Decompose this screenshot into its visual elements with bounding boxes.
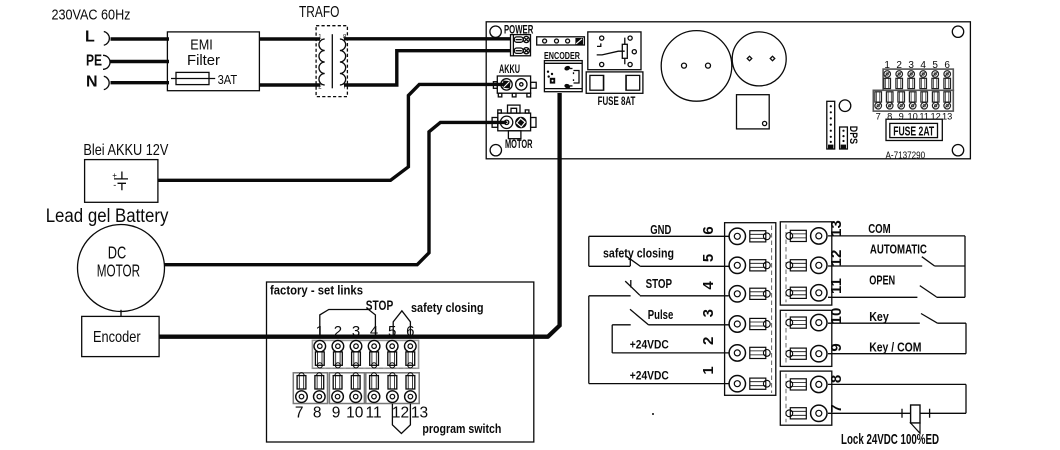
svg-text:FUSE 2AT: FUSE 2AT <box>893 123 934 138</box>
wire TRAFO to POWER top <box>344 37 511 40</box>
svg-text:7: 7 <box>295 404 304 421</box>
svg-text:6: 6 <box>700 226 717 234</box>
svg-text:OPEN: OPEN <box>869 273 895 287</box>
svg-text:13: 13 <box>828 220 845 237</box>
switch Pulse <box>630 309 649 325</box>
switch AUTOMATIC <box>922 257 935 266</box>
wire terminal 7 to lock <box>828 412 966 414</box>
connector MOTOR <box>492 105 536 139</box>
connector 4-pin strip <box>537 37 585 45</box>
svg-text:8: 8 <box>313 404 322 421</box>
wire EMI to TRAFO top <box>259 37 320 40</box>
svg-text:Filter: Filter <box>187 52 220 69</box>
wire +24VDC to terminal 1 <box>589 383 729 385</box>
svg-text:-: - <box>113 180 116 190</box>
svg-text:7: 7 <box>876 112 881 122</box>
safety closing link bracket terminals 5-6 <box>393 311 410 338</box>
svg-text:11: 11 <box>366 404 382 421</box>
right terminal numbers 13..7 rotated <box>828 220 845 413</box>
switch safety closing <box>626 256 641 267</box>
svg-text:12: 12 <box>828 250 845 267</box>
svg-text:L: L <box>85 28 95 45</box>
svg-text:+24VDC: +24VDC <box>630 369 669 383</box>
IC U2 square <box>737 95 770 129</box>
terminal 7 <box>786 405 827 421</box>
DIP switch strip tall <box>827 101 835 149</box>
PCB terminal strip row 7-13 <box>873 90 953 111</box>
contact arc PE <box>103 55 110 69</box>
PCB board outline <box>486 22 970 159</box>
factory-set links box <box>267 282 534 442</box>
svg-text:GND: GND <box>650 223 671 237</box>
encoder box <box>82 316 159 356</box>
wire Pulse-24VDC vertical <box>611 325 613 353</box>
terminal 1 <box>729 376 770 392</box>
svg-text:10: 10 <box>346 404 364 421</box>
wire terminal 8 <box>828 383 966 385</box>
wire TRAFO bottom to POWER bottom <box>344 51 511 87</box>
svg-text:3AT: 3AT <box>218 73 238 87</box>
svg-text:TRAFO: TRAFO <box>299 4 339 21</box>
svg-text:9: 9 <box>899 112 904 122</box>
wire +24VDC to terminal 2 <box>612 352 728 354</box>
transformer secondary coil <box>340 39 346 85</box>
PCB mounting hole bottom-right <box>952 145 963 156</box>
wire 8-7 vertical <box>965 384 967 413</box>
PCB terminal strip numbers 1-6 <box>884 60 950 71</box>
svg-text:9: 9 <box>828 343 845 351</box>
factory numbers 1-6 <box>316 323 415 340</box>
svg-text:safety closing: safety closing <box>411 300 484 315</box>
lock lead ticks <box>902 409 930 418</box>
svg-text:9: 9 <box>332 404 341 421</box>
svg-text:Pulse: Pulse <box>648 308 674 322</box>
transformer primary coil <box>319 39 325 85</box>
svg-text:Key: Key <box>869 310 889 324</box>
svg-text:13: 13 <box>411 404 428 421</box>
wire Key/COM from terminal 9 <box>828 353 966 355</box>
svg-text:8: 8 <box>828 375 845 383</box>
svg-text:11: 11 <box>919 112 929 122</box>
PCB mounting hole bottom-left <box>490 145 501 156</box>
left terminal numbers 6..1 rotated <box>700 226 717 374</box>
wire GND to terminal 6 <box>589 235 729 237</box>
terminal 10 <box>786 314 827 330</box>
switch STOP <box>625 280 640 295</box>
PCB terminal strip numbers 7-13 <box>876 112 953 122</box>
svg-text:10: 10 <box>828 308 845 325</box>
wire COM vertical <box>964 236 966 297</box>
terminal 8 <box>786 376 827 392</box>
svg-text:DPS: DPS <box>847 126 859 144</box>
PCB terminal strip row 1-6 <box>883 69 953 90</box>
EMI filter box <box>167 32 259 91</box>
wire Pulse to terminal 3 <box>612 324 728 326</box>
terminal 5 <box>729 257 770 273</box>
contact arc L <box>104 32 110 46</box>
svg-text:13: 13 <box>942 112 952 122</box>
wire STOP to terminal 4 <box>589 295 729 297</box>
terminal 12 <box>786 257 827 273</box>
svg-text:safety closing: safety closing <box>603 247 674 261</box>
svg-text:10: 10 <box>908 112 918 122</box>
svg-text:2: 2 <box>700 337 717 345</box>
terminal 4 <box>729 286 770 302</box>
wire GND-safety vertical <box>588 236 590 266</box>
battery box <box>85 160 158 203</box>
fuse holder FUSE 8AT <box>586 72 643 93</box>
svg-text:Blei AKKU 12V: Blei AKKU 12V <box>83 142 168 159</box>
connector POWER <box>511 35 531 56</box>
wire DC motor to MOTOR connector <box>165 122 507 264</box>
svg-text:12: 12 <box>931 112 941 122</box>
svg-text:program switch: program switch <box>422 421 501 436</box>
svg-text:Lock 24VDC 100%ED: Lock 24VDC 100%ED <box>841 431 939 448</box>
svg-text:11: 11 <box>828 278 845 294</box>
capacitor C1 <box>661 31 732 102</box>
switch Key <box>921 314 938 324</box>
wire encoder over factory box (redraw on top) <box>159 334 548 338</box>
factory terminal row 1-6 <box>312 340 418 368</box>
svg-text:Encoder: Encoder <box>93 329 141 346</box>
wire N to EMI <box>111 81 170 84</box>
wire Key from terminal 10 <box>828 322 966 324</box>
terminal 11 <box>786 285 827 301</box>
wire safety closing to terminal 5 <box>589 265 729 267</box>
transformer core bar <box>331 34 333 88</box>
relay U1 <box>588 32 641 70</box>
svg-text:AKKU: AKKU <box>499 62 520 76</box>
capacitor C2 <box>732 32 786 86</box>
wire STOP-24VDC vertical <box>588 296 590 384</box>
terminal 3 <box>729 316 770 332</box>
wire battery to AKKU connector <box>158 84 506 180</box>
svg-text:230VAC 60Hz: 230VAC 60Hz <box>52 7 131 24</box>
svg-text:8: 8 <box>887 112 892 122</box>
svg-text:PE: PE <box>86 53 102 70</box>
svg-text:Key / COM: Key / COM <box>869 340 921 354</box>
terminal block right group 8-7 <box>780 371 832 425</box>
connector ENCODER box <box>544 61 582 92</box>
terminal block left 6..1 <box>725 223 776 396</box>
stray dot <box>652 413 654 415</box>
DIP switch strip short DPS <box>840 127 848 149</box>
wire encoder box to ENCODER connector <box>159 93 560 337</box>
battery symbol <box>114 172 128 191</box>
wire Key vertical <box>965 323 967 354</box>
svg-text:3: 3 <box>700 309 717 317</box>
svg-text:+: + <box>112 171 117 180</box>
solenoid lock <box>911 405 920 423</box>
PCB hole near DPS <box>839 100 851 112</box>
PCB mounting hole top-left <box>490 26 501 37</box>
factory terminal row 7-13 group 7-8 <box>293 373 419 404</box>
contact arc N <box>104 76 109 89</box>
STOP link bracket terminals 1-4 <box>320 310 376 338</box>
svg-text:factory - set links: factory - set links <box>270 282 363 297</box>
svg-text:+24VDC: +24VDC <box>630 338 669 352</box>
svg-text:A-7137290: A-7137290 <box>886 149 926 161</box>
program switch bracket terminals 12-13 <box>392 404 410 434</box>
wire L to EMI <box>111 37 170 40</box>
wire OPEN from terminal 11 <box>828 296 965 298</box>
svg-text:5: 5 <box>700 254 717 262</box>
svg-text:4: 4 <box>700 281 717 290</box>
svg-text:MOTOR: MOTOR <box>97 260 140 280</box>
terminal block right group 10-9 <box>780 310 832 366</box>
svg-text:AUTOMATIC: AUTOMATIC <box>870 242 927 256</box>
fuse holder FUSE 2AT <box>886 119 942 140</box>
svg-text:1: 1 <box>700 366 717 374</box>
svg-text:Lead gel Battery: Lead gel Battery <box>46 206 169 227</box>
transformer dashed box <box>316 26 347 97</box>
svg-text:COM: COM <box>868 222 891 236</box>
terminal block right group 13-12-11 <box>780 222 832 305</box>
connector AKKU <box>493 76 536 97</box>
terminal 9 <box>786 346 827 362</box>
wire COM from terminal 13 <box>828 235 965 237</box>
wire EMI to TRAFO bottom <box>259 83 320 86</box>
motor DC MOTOR circle <box>78 225 165 312</box>
terminal 13 <box>786 228 827 244</box>
terminal 6 <box>729 228 770 244</box>
svg-text:7: 7 <box>828 404 845 412</box>
terminal 2 <box>729 345 770 361</box>
svg-text:N: N <box>86 73 98 90</box>
switch OPEN <box>920 286 937 297</box>
svg-text:STOP: STOP <box>646 277 673 291</box>
fuse 3AT symbol <box>171 78 215 80</box>
wire AUTOMATIC from terminal 12 <box>828 265 965 267</box>
PCB mounting hole top-right <box>952 26 963 37</box>
factory numbers 7-13 <box>295 404 428 421</box>
wire PE to EMI <box>110 60 169 63</box>
wire motor to encoder stem <box>120 310 122 317</box>
svg-text:MOTOR: MOTOR <box>505 137 533 151</box>
svg-text:12: 12 <box>392 404 409 421</box>
svg-text:FUSE 8AT: FUSE 8AT <box>598 94 636 108</box>
